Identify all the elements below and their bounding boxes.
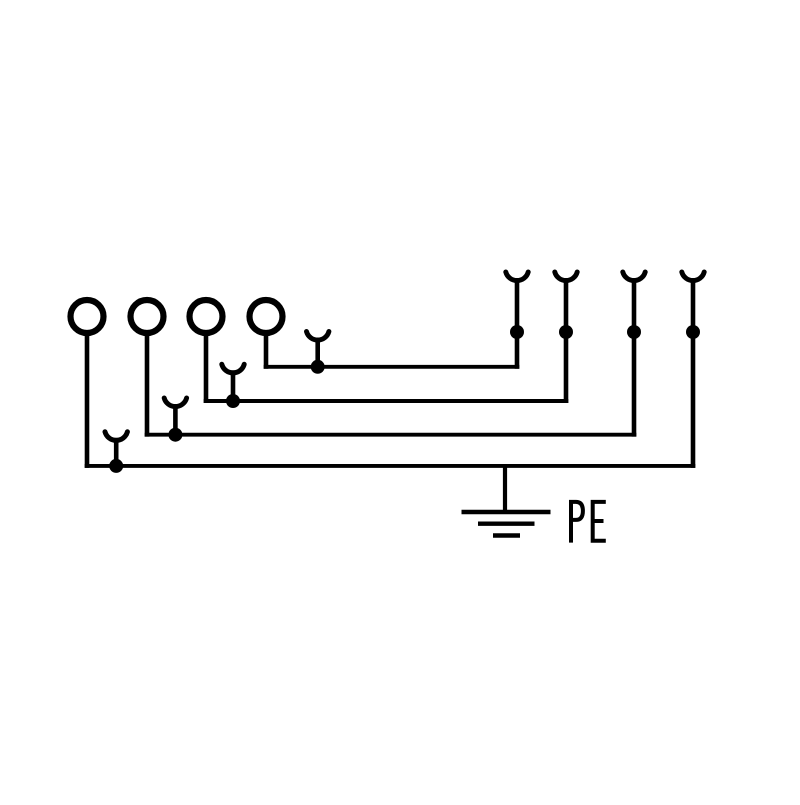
wire: bus line B (level 3) [204, 399, 569, 403]
junction dot R2 [559, 325, 573, 339]
junction dot R3 [627, 325, 641, 339]
junction dot F4 [311, 360, 325, 374]
wire: O4 stem down [264, 335, 269, 369]
clamp contact R1 (top right) [506, 272, 528, 369]
wire: bus line C (level 2) [145, 433, 637, 437]
clamp contact F3 on bus B [222, 364, 244, 401]
clamp contact F2 on bus C [164, 398, 186, 435]
clamp contact F1 on bus D [105, 432, 127, 466]
wire: bus line A (level 4) [264, 365, 520, 369]
wire: O3 stem down [204, 335, 209, 403]
terminal circle O3 [190, 300, 223, 333]
clamp contact R2 [555, 272, 577, 403]
wire: O1 stem down [85, 335, 90, 468]
junction dot R4 [686, 325, 700, 339]
terminal circle O2 [131, 300, 164, 333]
wire: bus line D (bottom, PE bus) [85, 464, 696, 468]
junction dot F3 [226, 394, 240, 408]
earth ground symbol [462, 512, 551, 536]
junction dot R1 [510, 325, 524, 339]
clamp contact R4 [682, 272, 704, 468]
terminal circle O4 [250, 300, 283, 333]
clamp contact R3 [623, 272, 645, 437]
junction dot F2 [168, 428, 182, 442]
clamp contact F4 on bus A [307, 332, 329, 367]
label PE [571, 502, 606, 543]
junction dot F1 [109, 459, 123, 473]
wire: ground tap [503, 464, 507, 512]
wire: O2 stem down [145, 335, 150, 437]
terminal circle O1 [71, 300, 104, 333]
